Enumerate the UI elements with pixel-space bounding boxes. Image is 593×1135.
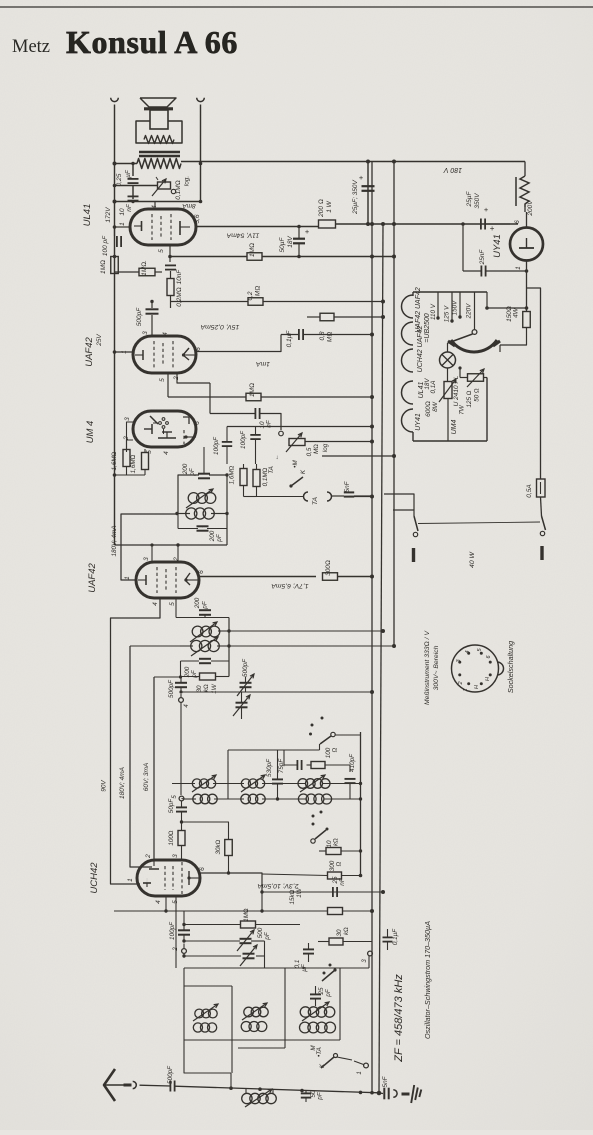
- svg-text:Metz: Metz: [12, 37, 50, 57]
- label Sockelschaltung: [506, 641, 515, 693]
- tube UM4 target dots: [153, 418, 168, 434]
- label TA sockets: [312, 496, 319, 505]
- svg-text:3: 3: [124, 417, 131, 421]
- svg-text:25V: 25V: [96, 334, 103, 347]
- svg-text:MΩ: MΩ: [313, 444, 320, 454]
- potentiometer P2 0,5M log: [279, 431, 305, 452]
- oscillator coil L5a: [242, 1003, 268, 1020]
- svg-text:3: 3: [142, 331, 149, 335]
- capacitor C5 50uF 18V: [293, 225, 305, 259]
- label C7 0,1uF: [286, 330, 293, 348]
- capacitor C30 0,1uF: [303, 943, 314, 962]
- mains plug prong left: [412, 548, 415, 562]
- label 11V 54mA: [226, 232, 259, 239]
- svg-text:1: 1: [463, 688, 469, 691]
- wire TA to C14: [331, 495, 344, 497]
- resistor R19 100R: [307, 762, 351, 773]
- svg-text:200V: 200V: [527, 200, 534, 217]
- svg-text:5nF: 5nF: [382, 1075, 389, 1087]
- svg-text:UCH42 UAF42: UCH42 UAF42: [417, 326, 424, 373]
- wire TA row left: [244, 496, 305, 498]
- svg-text:MΩ: MΩ: [255, 286, 262, 296]
- wire R17 to bus: [338, 575, 375, 579]
- capacitor C11 10nF: [255, 408, 259, 419]
- tube UAF42b envelope: [136, 562, 199, 598]
- label C27 100pF: [169, 921, 176, 940]
- resistor R2 1M: [247, 253, 262, 261]
- wire R4 to bus: [115, 271, 163, 273]
- svg-text:100pF: 100pF: [240, 430, 247, 449]
- output transformer T1 primary winding: [144, 136, 174, 144]
- osc switch S4b K: [319, 1054, 338, 1069]
- svg-text:300Ω: 300Ω: [325, 560, 332, 576]
- label 1mA: [256, 360, 270, 367]
- svg-text:180 V: 180 V: [443, 166, 463, 173]
- svg-text:500pF: 500pF: [167, 1065, 174, 1084]
- band switch S3b contacts: [312, 811, 329, 831]
- capacitor C14 5nF: [344, 492, 354, 496]
- svg-text:1MΩ: 1MΩ: [249, 243, 256, 257]
- svg-text:1,6MΩ: 1,6MΩ: [111, 451, 118, 470]
- wire gang a leads: [241, 692, 243, 719]
- svg-text:6: 6: [194, 421, 201, 425]
- pilot lamp La1: [440, 352, 456, 368]
- resistor R17 300R: [323, 573, 338, 581]
- tube UY41 pin1: [515, 261, 527, 312]
- resistor R7 0,8M: [320, 313, 334, 321]
- label R10 125R 50R 7W: [459, 388, 481, 415]
- svg-text:2: 2: [145, 854, 152, 859]
- wire cap 0.25uF top: [132, 164, 134, 177]
- svg-text:30: 30: [336, 929, 343, 937]
- svg-text:U 2410 PL: U 2410 PL: [453, 375, 460, 406]
- svg-text:7W: 7W: [459, 404, 466, 415]
- label R2 1M: [249, 243, 256, 257]
- label M TA osc: [310, 1045, 323, 1057]
- label 200V: [527, 200, 534, 217]
- capacitor C8 25uF 350V: [481, 205, 489, 230]
- wire rail corner to dropper: [524, 162, 526, 177]
- capacitor C16 200pF: [178, 514, 227, 531]
- svg-text:0,5A: 0,5A: [526, 484, 533, 497]
- svg-text:18V: 18V: [287, 236, 294, 248]
- tube UAF42b grids: [157, 567, 176, 593]
- svg-text:TA: TA: [312, 496, 319, 505]
- wire UCH42 anode out: [200, 871, 262, 892]
- capacitor C21 tuning gang a: [233, 695, 250, 716]
- wire pot row 456: [322, 454, 396, 458]
- tube UL41 pin1 label: [119, 222, 126, 226]
- label plus UY41: [490, 224, 495, 233]
- tube UCH42 anode: [187, 871, 200, 885]
- capacitor C34 50pF: [301, 1091, 311, 1102]
- wire grid row UL41: [115, 201, 201, 203]
- svg-text:1: 1: [515, 266, 522, 270]
- capacitor C13 100pF: [250, 427, 260, 465]
- svg-text:25nF: 25nF: [479, 249, 486, 266]
- capacitor C17 200pF: [199, 610, 211, 617]
- wire UM4 pin3 lead: [127, 422, 134, 449]
- svg-text:kΩ: kΩ: [343, 927, 350, 935]
- svg-text:0,1: 0,1: [294, 960, 301, 969]
- bandfilter coil L3a: [298, 775, 330, 792]
- label tube UL41: [82, 204, 93, 227]
- svg-text:15kΩ: 15kΩ: [289, 889, 296, 904]
- label C3 100pF: [102, 235, 109, 256]
- wire osc frame: [184, 968, 340, 1073]
- wire row 892: [262, 890, 385, 894]
- svg-text:2: 2: [173, 557, 180, 562]
- wire row 692: [181, 690, 374, 694]
- resistor R4 1M grid: [139, 268, 155, 276]
- svg-text:50 Ω: 50 Ω: [474, 388, 481, 402]
- junction rail 368: [366, 160, 370, 227]
- mains plug prong right: [540, 546, 543, 560]
- svg-text:ZF = 458/473 kHz: ZF = 458/473 kHz: [393, 974, 405, 1063]
- svg-text:+: +: [305, 227, 310, 236]
- svg-text:UM4: UM4: [451, 420, 458, 435]
- sockets TA: [304, 492, 332, 501]
- svg-text:H: H: [485, 677, 491, 681]
- tube UCH42 pins: [127, 854, 206, 904]
- svg-text:25µF; 350V: 25µF; 350V: [352, 179, 359, 214]
- svg-text:1MΩ: 1MΩ: [243, 908, 250, 922]
- svg-text:25: 25: [332, 876, 339, 885]
- wire row 646: [130, 644, 396, 648]
- tube UAF42b pins: [124, 557, 205, 606]
- label 60V 3mA: [143, 763, 150, 791]
- wire osc to ant: [230, 1073, 232, 1088]
- capacitor C15 200pF: [198, 447, 210, 478]
- capacitor C1 0,25uF: [128, 179, 139, 183]
- wire row 630: [229, 629, 385, 633]
- oscillator coil L4b: [193, 1023, 216, 1032]
- capacitor C19 500pF trim: [237, 674, 254, 696]
- svg-text:Meßinstrument 333Ω / V: Meßinstrument 333Ω / V: [424, 630, 431, 705]
- svg-text:kΩ: kΩ: [333, 838, 340, 846]
- svg-text:1MΩ: 1MΩ: [100, 260, 107, 274]
- label C14 5nF: [344, 480, 351, 492]
- label C34 50pF: [310, 1090, 324, 1101]
- label R5 1M bus: [100, 260, 107, 274]
- svg-text:0,25: 0,25: [116, 173, 123, 186]
- label P1 0,1MOhm log: [175, 176, 191, 200]
- svg-text:100pF: 100pF: [213, 436, 220, 455]
- label R19 100R: [325, 747, 339, 758]
- wire UCH42 pin1 lead: [111, 883, 141, 885]
- wire anode rail to UY41: [336, 223, 519, 225]
- tube UM4 deflector: [144, 416, 158, 434]
- resistor R24 15k: [114, 890, 374, 914]
- label heater UB2500: [424, 313, 431, 342]
- transformer U2500 winding humps: [402, 295, 414, 432]
- terminal post 2: [173, 947, 186, 954]
- label U2410PL: [453, 375, 460, 406]
- output transformer T1 secondary winding: [137, 159, 181, 169]
- wire bandfilter vertical: [227, 750, 229, 799]
- svg-text:µF: µF: [125, 169, 132, 178]
- svg-text:UAF42: UAF42: [84, 337, 95, 367]
- wire S4b to terminal: [337, 1057, 368, 1075]
- wire UAF42b pin5 down: [176, 598, 229, 618]
- tube UY41 pin6: [514, 207, 527, 228]
- tube UM4 right electrode: [183, 417, 196, 444]
- tube UAF42a cathode: [135, 350, 143, 360]
- svg-text:6: 6: [195, 347, 202, 351]
- capacitor C28 500pF trim: [237, 930, 254, 951]
- label C22 530pF: [266, 758, 273, 777]
- wire row 426: [227, 425, 374, 429]
- capacitor C4 25uF 350V: [362, 186, 375, 191]
- svg-text:200: 200: [194, 597, 201, 609]
- wire mains right vertical: [527, 288, 541, 479]
- resistor R22 100R v: [178, 822, 185, 861]
- resistor R9 600R 8W: [439, 379, 456, 402]
- output transformer T1 core: [139, 152, 180, 156]
- page top rule: [0, 6, 593, 8]
- label ZF 458 473: [393, 974, 405, 1063]
- wire 500pF drop: [150, 300, 153, 336]
- label Oszillator Schwingstrom: [423, 921, 432, 1039]
- svg-text:200: 200: [209, 530, 216, 542]
- wire UL41 anode out: [196, 226, 318, 228]
- label C16 200pF: [209, 530, 223, 542]
- wire UY41 cathode to 150R: [0, 0, 1, 1]
- label R7 0,8M: [319, 331, 334, 342]
- capacitor C20 500pF: [154, 677, 187, 694]
- resistor R3 0,2M: [167, 271, 174, 308]
- transformer U2500 top edge: [413, 292, 487, 296]
- wire cathode row b: [262, 255, 396, 259]
- svg-text:0,2MΩ: 0,2MΩ: [176, 287, 183, 306]
- wire C9 row: [461, 222, 528, 273]
- label UY41: [492, 234, 503, 258]
- label heater UCH42 UAF42: [417, 326, 424, 373]
- label C9 25nF: [479, 249, 486, 266]
- svg-text:H: H: [474, 685, 480, 689]
- label C17 200pF: [194, 597, 209, 609]
- wire UAF42a pin5 lead: [167, 373, 169, 397]
- label R6 0,2M: [247, 286, 262, 301]
- label C11 10nF: [259, 419, 273, 428]
- antenna hook: [133, 1081, 137, 1088]
- svg-text:15V, 0,25mA: 15V, 0,25mA: [200, 323, 239, 330]
- label C15 200pF: [182, 463, 196, 476]
- oscillator coil L5b: [241, 1022, 267, 1032]
- tube UY41 anode: [526, 238, 528, 248]
- label R1 200R 1W: [318, 199, 333, 218]
- svg-text:TA: TA: [268, 466, 275, 474]
- tube UL41 pin36 label: [194, 214, 201, 223]
- svg-text:4: 4: [465, 650, 471, 653]
- tube UL41 anode: [180, 221, 190, 235]
- resistor R14 1,6M: [142, 449, 149, 475]
- band switch S3b arm: [311, 830, 326, 843]
- wire UAF42b anode out: [199, 576, 316, 578]
- svg-text:200 Ω: 200 Ω: [318, 199, 325, 218]
- socket diagram circle: [452, 645, 504, 692]
- svg-text:pF: pF: [325, 988, 332, 998]
- svg-text:Oszillator–Schwingstrom 170–35: Oszillator–Schwingstrom 170–350µA: [423, 921, 432, 1039]
- tube UAF42a anode: [182, 348, 196, 360]
- terminal post 5: [172, 795, 184, 801]
- svg-text:nF: nF: [126, 203, 133, 212]
- wire speaker right lead: [199, 105, 203, 204]
- label heater UM4: [451, 420, 458, 435]
- svg-text:0,1µF: 0,1µF: [286, 330, 293, 348]
- svg-text:1 W: 1 W: [326, 200, 333, 212]
- capacitor C10 500pF: [146, 309, 159, 313]
- label F1 0,5A: [526, 484, 533, 497]
- IF transformer IFT2 coil b: [175, 508, 228, 519]
- label C28 500pF: [257, 927, 271, 940]
- tube UCH42 triode: [143, 860, 159, 887]
- svg-text:530pF: 530pF: [266, 758, 273, 777]
- svg-text:150V: 150V: [452, 300, 459, 316]
- wire UAF42a grid feed: [113, 350, 133, 354]
- tap 150V: [452, 292, 462, 319]
- svg-text:MΩ: MΩ: [327, 332, 334, 342]
- capacitor C26 25nF: [333, 887, 337, 897]
- label R24 15k 1W: [289, 887, 303, 904]
- tube UL41 cathode: [134, 221, 142, 231]
- resistor R23 30k v: [182, 822, 233, 873]
- label P2 0,5M log: [306, 443, 329, 456]
- bus wire C x394: [393, 162, 395, 647]
- svg-text:220V: 220V: [466, 303, 473, 320]
- wire secondary left to bus: [115, 163, 138, 165]
- svg-text:10nF: 10nF: [176, 269, 183, 285]
- label tube UAF42b: [87, 563, 98, 593]
- antenna symbol: [104, 1069, 132, 1101]
- svg-text:25: 25: [318, 987, 325, 996]
- svg-text:5: 5: [169, 602, 176, 606]
- label R3 0,2M 10nF: [176, 269, 183, 307]
- svg-text:6: 6: [199, 867, 206, 871]
- title Konsul A 66: [66, 24, 238, 60]
- tube UAF42a envelope: [133, 336, 196, 373]
- svg-text:0,1µF: 0,1µF: [392, 928, 399, 945]
- svg-text:8mA: 8mA: [182, 202, 195, 209]
- svg-text:2: 2: [173, 947, 179, 952]
- label 8mA: [182, 202, 195, 209]
- resistor R6 0,2M: [248, 298, 263, 306]
- svg-text:5: 5: [159, 378, 166, 382]
- scan mark: [156, 177, 158, 180]
- label R21 300R: [329, 860, 343, 871]
- wire UCH42 pin4 lead: [164, 896, 167, 913]
- svg-text:Ω: Ω: [332, 747, 339, 752]
- svg-text:600Ω: 600Ω: [425, 401, 432, 417]
- speaker LS1 terminal hook right: [197, 98, 205, 102]
- label C33 500pF ant: [167, 1065, 174, 1084]
- svg-text:pF: pF: [191, 669, 198, 679]
- voltage selector arc: [451, 340, 497, 352]
- speaker LS1 terminal hook left: [111, 98, 119, 102]
- label 1,7V 6,5mA: [271, 582, 309, 589]
- wire pot row 441: [305, 440, 374, 444]
- tap 125V: [444, 292, 454, 323]
- wire R9 down: [447, 399, 449, 442]
- label 180V: [443, 166, 463, 173]
- output transformer T1 housing: [136, 121, 182, 143]
- svg-text:4: 4: [152, 602, 159, 606]
- speaker LS1 cone: [140, 98, 176, 109]
- label R25 1M osc: [243, 908, 250, 922]
- capacitor C9 25nF: [481, 266, 485, 277]
- svg-text:0,1MΩ: 0,1MΩ: [262, 467, 269, 486]
- capacitor C33 500pF ant: [140, 1081, 175, 1092]
- socket pins: [458, 652, 491, 685]
- svg-text:2,3V; 10,5mA: 2,3V; 10,5mA: [257, 882, 300, 889]
- tube UAF42b anode: [184, 573, 199, 585]
- svg-text:6: 6: [198, 570, 205, 574]
- wire pot row: [113, 184, 157, 199]
- label tube UAF42a: [84, 334, 103, 367]
- label R15 1,6M v: [229, 465, 236, 484]
- svg-text:5nF: 5nF: [344, 480, 351, 492]
- capacitor C27 100pF: [178, 911, 190, 943]
- label tube UCH42: [89, 862, 100, 894]
- IF transformer IFT1 coil a: [190, 622, 229, 642]
- wire R11 down: [500, 328, 527, 353]
- capacitor C32 25pF: [310, 986, 321, 1006]
- svg-text:300V~ Bereich: 300V~ Bereich: [433, 645, 440, 690]
- svg-text:1: 1: [357, 1071, 363, 1074]
- terminal post 4: [179, 694, 190, 795]
- capacitor C2 10nF: [128, 196, 139, 200]
- svg-text:log.: log.: [184, 176, 191, 187]
- label C32 25pF: [318, 987, 332, 998]
- wire UM4 cathode bus: [113, 473, 145, 477]
- tube UCH42 envelope: [137, 860, 200, 896]
- wire lamp to resistor: [447, 343, 449, 381]
- capacitor C35 5nF: [379, 1088, 389, 1100]
- svg-text:172V: 172V: [105, 207, 112, 223]
- label tube UM4: [85, 421, 96, 444]
- tube UM4 envelope: [133, 411, 196, 447]
- tube UY41 cathode: [519, 247, 534, 249]
- svg-text:1mA: 1mA: [256, 360, 270, 367]
- tube UL41 pin5 label: [158, 249, 165, 253]
- tube UY41 envelope: [510, 228, 543, 261]
- svg-text:+: +: [484, 205, 489, 214]
- svg-text:nF: nF: [339, 877, 346, 886]
- svg-text:•TA: •TA: [316, 1047, 323, 1057]
- svg-text:UL41: UL41: [82, 204, 93, 227]
- tube UL41 grid dashes: [152, 214, 171, 240]
- capacitor C6 10nF pin5: [165, 265, 176, 269]
- capacitor C24 410pF: [345, 779, 356, 799]
- oscillator coil L6b: [300, 1022, 336, 1033]
- svg-text:500pF: 500pF: [168, 679, 175, 698]
- wire IFT1 frame: [181, 618, 231, 678]
- resistor R11 150R 4W: [523, 312, 531, 328]
- svg-text:410pF: 410pF: [349, 753, 356, 772]
- svg-text:110 V: 110 V: [430, 303, 437, 320]
- svg-text:30kΩ: 30kΩ: [215, 839, 222, 854]
- svg-text:1: 1: [124, 576, 131, 580]
- wire UL41 pin5 down: [169, 245, 171, 262]
- bus wire B x383: [379, 224, 383, 1093]
- svg-text:pF: pF: [264, 931, 271, 941]
- resistor R26 30k osc: [318, 938, 372, 945]
- label C25 50pF: [168, 798, 175, 814]
- svg-text:log: log: [322, 443, 329, 452]
- wire cathode row: [170, 256, 247, 258]
- label 2,3V 10,5mA: [257, 882, 300, 889]
- tube UAF42a grids: [154, 341, 173, 368]
